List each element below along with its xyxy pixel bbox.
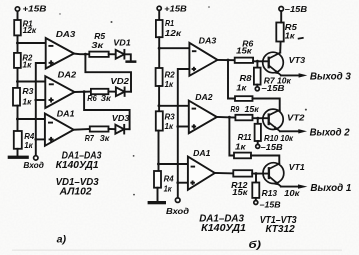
op-amp DA1 (b)	[188, 149, 215, 190]
terminal +15V (b)	[157, 5, 187, 14]
svg-text:КТ312: КТ312	[266, 224, 296, 235]
svg-text:б): б)	[249, 239, 262, 251]
ground under R4 (a)	[8, 156, 29, 159]
svg-text:–15В: –15В	[260, 201, 281, 210]
wire VT3 emitter to output 3	[281, 74, 299, 76]
svg-text:3к: 3к	[100, 134, 110, 143]
svg-text:Выход 2: Выход 2	[310, 127, 350, 138]
svg-text:а): а)	[57, 235, 67, 246]
input bus (b)	[178, 69, 190, 198]
node divider tap 2 (a)	[16, 80, 19, 83]
node DA3 output junction (b)	[227, 59, 230, 62]
terminal -15V top	[279, 5, 307, 14]
wire R5 to -15V terminal	[280, 11, 282, 23]
wire bus to DA2 noninverting input	[36, 99, 46, 101]
svg-text:R5: R5	[94, 32, 105, 41]
resistor R4 (a) 1k	[14, 131, 35, 150]
scan speck	[111, 21, 113, 23]
svg-text:Выход 1: Выход 1	[310, 183, 351, 194]
wire DA3 output to VD2 cathode	[85, 54, 131, 91]
wire R1 to R2	[17, 35, 19, 53]
resistor R11 1k vertical	[235, 118, 261, 152]
svg-text:VT1: VT1	[289, 163, 305, 172]
svg-text:R6: R6	[87, 94, 97, 103]
svg-text:Выход 3: Выход 3	[310, 72, 351, 83]
diode VD1	[113, 39, 131, 59]
wire VD3 cathode to corner	[124, 128, 129, 130]
wire DA2 output to R6	[75, 91, 91, 93]
ground after VD1	[125, 60, 136, 63]
wire R5 to VD1	[109, 53, 116, 55]
wire terminal to R1 (b)	[158, 10, 160, 20]
svg-text:R3: R3	[22, 87, 33, 96]
svg-text:R4: R4	[24, 132, 34, 141]
op-amp DA3 (a)	[46, 30, 76, 68]
svg-text:DA3: DA3	[199, 37, 217, 46]
svg-text:1к: 1к	[165, 122, 174, 131]
wire tap3 to DA1 inverting input	[18, 118, 45, 120]
svg-text:R7 10к: R7 10к	[264, 76, 292, 85]
node DA2 output junction (b)	[228, 116, 231, 119]
wire tap1 to DA3 inverting input	[18, 42, 46, 44]
wire R2 to R3 (b)	[158, 86, 160, 111]
svg-text:12к: 12к	[165, 29, 182, 38]
svg-text:–15В: –15В	[261, 143, 283, 152]
resistor R6 (a) 3k	[87, 89, 111, 103]
resistor R4 (b) 1k	[154, 171, 174, 194]
svg-text:Вход: Вход	[23, 161, 44, 170]
svg-text:DA2: DA2	[195, 93, 213, 102]
caption DA1-DA3 K140UD1 (b)	[199, 214, 246, 234]
wire R2 to R3	[17, 68, 19, 88]
node divider tap 3 (a)	[16, 118, 19, 121]
resistor R2 (b) 1k	[156, 68, 176, 89]
op-amp DA2 (b)	[189, 93, 217, 133]
terminal -15V below R11	[256, 143, 283, 152]
wire R10 to VT1 collector	[251, 156, 279, 163]
svg-text:1к: 1к	[285, 32, 296, 41]
node base junction VT1	[255, 172, 258, 175]
svg-text:R7: R7	[85, 134, 94, 143]
svg-text:+15В: +15В	[22, 5, 46, 14]
svg-text:10к: 10к	[284, 189, 300, 198]
svg-text:1к: 1к	[24, 141, 33, 150]
wire DA2 output branch to R10	[229, 117, 234, 155]
svg-text:12к: 12к	[23, 26, 37, 35]
scan speck	[59, 13, 60, 14]
arrow output 1	[298, 184, 307, 188]
wire R12 to VT1 base	[252, 173, 269, 175]
caption DA1-DA3 K140UD1 (a)	[56, 151, 102, 171]
wire from +15V terminal to R1	[17, 11, 19, 20]
wire R3 to R4	[17, 106, 19, 131]
scan speck	[305, 109, 307, 111]
resistor R10 10k horizontal	[234, 153, 251, 159]
svg-text:1к: 1к	[165, 80, 174, 89]
wire R4 to ground	[17, 149, 19, 156]
input bus (a)	[36, 63, 46, 156]
svg-text:R10 10к: R10 10к	[264, 134, 294, 143]
resistor R1 (b) 12k	[156, 19, 182, 38]
terminal input Vhod (b)	[166, 198, 189, 216]
resistor R5 (b) 1k	[276, 23, 297, 42]
node bus-DA1 junction (b)	[176, 181, 179, 184]
wire DA2 output to R9	[217, 116, 236, 119]
scan speck	[133, 194, 135, 196]
svg-text:Вход: Вход	[166, 207, 189, 216]
ground under R4 (b)	[148, 201, 166, 204]
resistor R1 (a) 12k	[14, 20, 37, 36]
wire DA1 output to R12	[215, 172, 234, 174]
resistor R6 (b) 15k	[235, 40, 254, 63]
caption VT1-VT3 KT312	[260, 215, 297, 235]
arrow output 2	[298, 129, 307, 133]
svg-text:VT3: VT3	[289, 56, 306, 65]
svg-text:К140УД1: К140УД1	[201, 223, 246, 234]
wire R6 to VT3 base	[253, 60, 269, 62]
resistor R7 (a) 3k	[85, 126, 110, 143]
scan streak bottom	[12, 250, 342, 251]
node bus-DA2 junction	[34, 99, 37, 102]
wire VT2 emitter to output 2	[280, 130, 299, 132]
svg-text:R1: R1	[165, 19, 174, 28]
wire DA2 output to VD3 cathode	[84, 92, 130, 130]
wire R4 to ground (b)	[157, 188, 159, 202]
terminal -15V below R8	[255, 84, 284, 93]
wire tap1 to DA3 inverting input (b)	[159, 47, 189, 49]
diode VD2	[110, 77, 129, 96]
svg-text:3к: 3к	[101, 94, 112, 103]
svg-text:+15В: +15В	[164, 5, 187, 14]
arrow output 3	[299, 73, 308, 77]
wire VD2 cathode to corner	[125, 91, 131, 93]
transistor VT3	[263, 52, 306, 75]
resistor R5 (a) 3k	[89, 32, 108, 57]
wire VT1 emitter to output 1	[281, 186, 299, 188]
resistor R2 (a) 1k	[14, 53, 33, 70]
svg-text:1к: 1к	[22, 98, 32, 107]
wire VD1 cathode to ground	[124, 54, 130, 60]
node divider tap 1 (b)	[158, 47, 161, 50]
scan speck	[133, 155, 135, 157]
svg-text:3к: 3к	[91, 41, 104, 50]
resistor R7 10k horizontal	[235, 96, 253, 101]
node base junction VT2	[256, 117, 259, 120]
stray dash mark	[299, 37, 303, 40]
svg-text:1к: 1к	[164, 185, 173, 194]
transistor VT1	[263, 163, 305, 187]
svg-text:1к: 1к	[22, 60, 32, 69]
svg-text:–15В: –15В	[285, 5, 307, 14]
scan speck	[208, 6, 210, 8]
wire DA3 output branch to R7	[228, 60, 235, 98]
svg-text:R5: R5	[285, 23, 298, 32]
terminal +15V (a)	[15, 5, 46, 14]
terminal -15V below R13	[254, 201, 281, 210]
node base junction VT3	[256, 60, 259, 63]
resistor R3 (a) 1k	[13, 87, 34, 106]
wire bus to DA2 noninverting input (b)	[178, 126, 189, 128]
wire VT3 collector to R5	[279, 42, 281, 53]
svg-text:1к: 1к	[236, 83, 247, 92]
svg-text:1к: 1к	[235, 143, 247, 152]
wire DA3 output to R6 (b)	[218, 59, 235, 61]
op-amp DA3 (b)	[189, 37, 217, 76]
svg-text:АЛ102: АЛ102	[59, 187, 92, 198]
resistor R8 1k vertical	[236, 61, 260, 92]
svg-text:15к: 15к	[232, 188, 248, 197]
svg-text:DA1: DA1	[57, 109, 75, 118]
node DA3 output junction	[84, 53, 87, 56]
svg-text:R8: R8	[240, 74, 253, 83]
wire tap2 to DA2 inverting input (b)	[159, 105, 189, 107]
resistor R9 15k	[230, 105, 259, 120]
svg-text:15к: 15к	[236, 46, 253, 55]
wire R9 to VT2 base	[253, 117, 269, 119]
wire bus to DA1 noninverting input	[36, 138, 45, 140]
svg-text:DA3: DA3	[56, 30, 76, 39]
op-amp DA1 (a)	[45, 109, 75, 145]
svg-text:VD1: VD1	[113, 39, 131, 48]
node divider tap 1 (a)	[16, 42, 19, 45]
wire bus to DA1 noninverting input (b)	[178, 182, 188, 184]
resistor R13 10k vertical	[252, 174, 300, 201]
svg-text:DA1: DA1	[193, 149, 211, 158]
svg-text:К140УД1: К140УД1	[56, 160, 99, 171]
svg-text:VD3: VD3	[112, 114, 130, 123]
node divider tap 2 (b)	[158, 104, 161, 107]
transistor VT2	[263, 109, 305, 131]
resistor R3 (b) 1k	[156, 111, 175, 131]
svg-text:R2: R2	[165, 71, 176, 80]
wire tap3 to DA1 inverting input (b)	[159, 163, 188, 165]
wire tap2 to DA2 inverting input	[18, 81, 46, 83]
svg-text:VT2: VT2	[287, 114, 305, 123]
node divider tap 3 (b)	[157, 163, 160, 166]
terminal input Vhod (a)	[23, 156, 44, 170]
wire DA3 output to R5	[74, 53, 89, 56]
wire R7 to VT2 collector	[253, 99, 280, 111]
wire R3 to R4 (b)	[158, 131, 160, 171]
caption VD1-VD3 AL102	[56, 177, 99, 198]
svg-text:R9: R9	[230, 105, 239, 114]
node bus-DA1 junction	[34, 138, 37, 141]
wire R1 to R2 (b)	[158, 37, 160, 68]
svg-text:VD2: VD2	[110, 77, 129, 86]
op-amp DA2 (a)	[45, 71, 76, 108]
resistor R12 15k	[231, 170, 252, 197]
svg-text:R3: R3	[165, 113, 176, 122]
node DA2 output junction	[83, 90, 86, 93]
svg-text:R13: R13	[262, 189, 278, 198]
svg-text:DA2: DA2	[58, 71, 77, 80]
svg-text:15к: 15к	[245, 105, 260, 114]
node bus-DA2 junction (b)	[176, 125, 179, 128]
diode VD3	[112, 114, 130, 134]
wire R6 to VD2	[108, 91, 116, 93]
svg-text:R4: R4	[164, 175, 174, 184]
svg-text:R11: R11	[238, 133, 252, 142]
wire R7 to VD3	[109, 128, 116, 130]
wire DA1 output to R7	[74, 128, 90, 131]
